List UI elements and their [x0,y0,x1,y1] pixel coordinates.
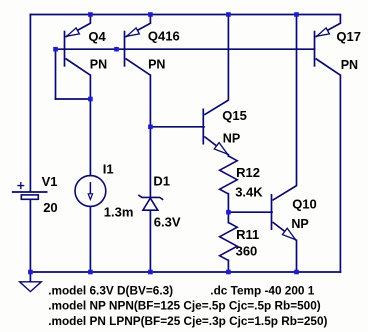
wire I1 bottom [89,207,91,272]
wire Q15 emitter to R12 [227,155,229,157]
svg-text:360: 360 [236,244,258,259]
wire left rail V1 top [29,15,31,192]
svg-text:20: 20 [43,200,57,215]
wire top rail [30,14,340,16]
svg-text:.model PN LPNP(BF=25 Cje=.3p C: .model PN LPNP(BF=25 Cje=.3p Cjc=1.5p Rb… [48,314,327,328]
svg-text:I1: I1 [103,162,114,177]
wire Q10 collector vertical [296,15,298,186]
resistor R12 [220,156,238,194]
transistor Q4 [65,15,91,76]
wire Q4 base-collector tie horizontal [56,98,91,100]
svg-text:PN: PN [90,58,107,72]
wire right vertical Q17 collector [339,75,341,272]
svg-text:Q416: Q416 [148,29,180,44]
node junction bottom rail D1 [148,270,153,275]
node junction top rail Q4 emitter [88,12,93,17]
node junction bottom rail R11 [226,270,231,275]
node junction top rail Q10 branch [294,12,299,17]
wire base rail [56,48,315,50]
node junction top rail Q15 branch [226,12,231,17]
node junction top rail Q416 emitter [148,12,153,17]
wire Q10 emitter vertical [296,240,298,272]
wire V1 bottom to ground [29,200,31,282]
wire Q15 base [150,126,204,128]
current source I1 [75,176,106,207]
svg-text:D1: D1 [153,173,170,188]
node junction bottom rail I1 [88,270,93,275]
wire Q4 base-collector tie vertical [55,49,57,99]
svg-text:PN: PN [341,58,358,72]
zener diode D1 [138,195,163,210]
transistor Q15 [203,100,228,155]
node junction D1 Q15 base [148,125,153,130]
transistor Q10 [272,186,297,241]
svg-text:6.3V: 6.3V [154,214,181,229]
svg-text:Q17: Q17 [336,29,361,44]
svg-text:.dc Temp -40 200 1: .dc Temp -40 200 1 [210,283,314,297]
node junction bottom rail ground [28,270,33,275]
node junction bottom rail Q10 emitter [294,270,299,275]
transistor Q17 [315,15,341,76]
svg-text:R12: R12 [236,165,260,180]
svg-text:Q10: Q10 [292,197,317,212]
svg-text:.model NP NPN(BF=125 Cje=.5p C: .model NP NPN(BF=125 Cje=.5p Cjc=.5p Rb=… [48,299,321,313]
svg-text:1.3m: 1.3m [104,204,134,219]
svg-text:.model 6.3V D(BV=6.3): .model 6.3V D(BV=6.3) [48,283,173,297]
wire Q15 collector vertical [227,15,229,100]
svg-text:NP: NP [223,131,240,145]
node junction Q4 collector tie [88,97,93,102]
ground [20,282,42,292]
wire Q4 collector to I1 [89,75,91,175]
svg-text:3.4K: 3.4K [235,185,263,200]
transistor Q416 [125,15,151,76]
svg-text:V1: V1 [42,174,58,189]
voltage source V1 battery [12,182,48,199]
node junction base rail left [53,47,58,52]
svg-text:R11: R11 [236,227,259,242]
svg-text:Q4: Q4 [88,29,106,44]
resistor R11 [220,223,238,261]
wire D1 bottom [149,210,151,272]
node junction R12 R11 Q10 base [226,210,231,215]
svg-text:PN: PN [148,57,165,71]
svg-text:Q15: Q15 [222,108,247,123]
wire R11 bottom [227,260,229,272]
wire R12 bottom to node [227,194,229,223]
wire bottom rail [30,271,340,273]
wire Q416 collector to D1 [149,75,151,197]
node junction Q416 base [114,47,119,52]
wire Q10 base [228,211,272,213]
svg-text:NP: NP [291,217,308,231]
